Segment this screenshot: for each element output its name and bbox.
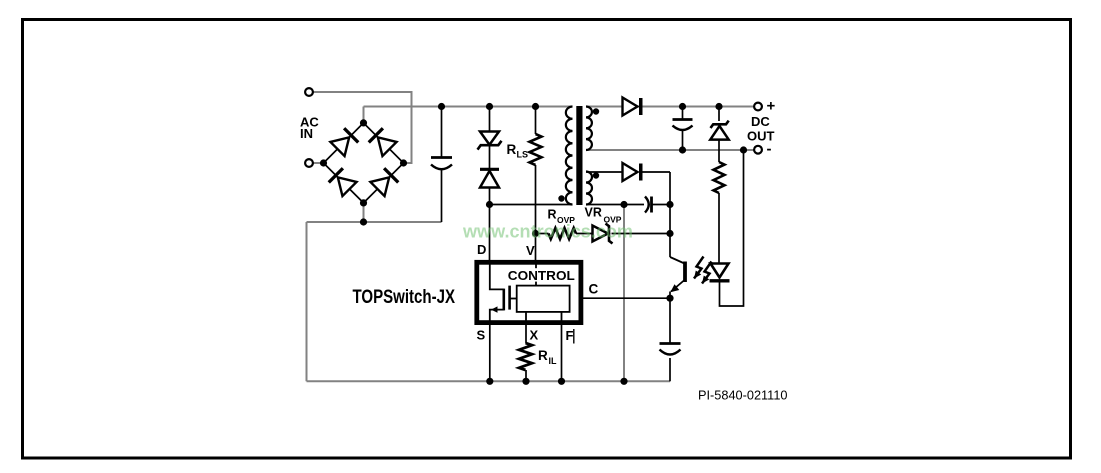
svg-text:+: + — [767, 98, 776, 115]
svg-text:X: X — [530, 327, 539, 342]
svg-text:R: R — [507, 142, 517, 157]
svg-text:F: F — [566, 328, 574, 343]
svg-text:CONTROL: CONTROL — [508, 268, 575, 283]
svg-text:IL: IL — [549, 356, 558, 366]
svg-text:DC: DC — [751, 114, 770, 129]
svg-text:R: R — [538, 348, 548, 363]
svg-text:S: S — [477, 327, 486, 342]
svg-text:VR: VR — [585, 206, 602, 220]
svg-text:V: V — [526, 243, 535, 258]
svg-text:www.cntronics.com: www.cntronics.com — [462, 221, 633, 242]
svg-text:R: R — [548, 208, 557, 222]
svg-text:LS: LS — [517, 150, 529, 160]
svg-text:TOPSwitch-JX: TOPSwitch-JX — [353, 287, 456, 308]
svg-text:C: C — [589, 282, 599, 297]
svg-text:IN: IN — [300, 126, 313, 141]
svg-text:-: - — [767, 141, 772, 158]
svg-text:PI-5840-021110: PI-5840-021110 — [698, 388, 788, 403]
svg-text:D: D — [477, 242, 486, 257]
